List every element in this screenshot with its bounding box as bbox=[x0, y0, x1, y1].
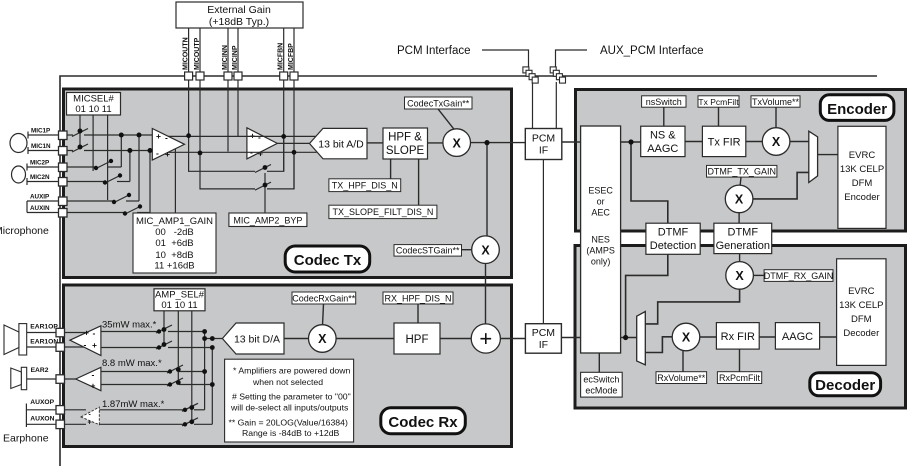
svg-text:10 +8dB: 10 +8dB bbox=[155, 250, 193, 261]
svg-text:DFM: DFM bbox=[852, 178, 873, 189]
svg-text:EAR2: EAR2 bbox=[31, 367, 49, 374]
svg-text:EVRC: EVRC bbox=[849, 150, 876, 161]
svg-text:Decoder: Decoder bbox=[815, 377, 875, 394]
svg-text:* Amplifiers are powered down: * Amplifiers are powered down bbox=[233, 366, 351, 376]
svg-text:EAR1OP: EAR1OP bbox=[30, 324, 58, 331]
svg-text:IF: IF bbox=[539, 145, 548, 157]
svg-text:-: - bbox=[156, 148, 159, 158]
svg-text:01 10 11: 01 10 11 bbox=[75, 104, 111, 115]
svg-text:Encoder: Encoder bbox=[844, 192, 879, 203]
svg-text:PCM: PCM bbox=[532, 133, 555, 145]
svg-text:only): only) bbox=[591, 257, 611, 267]
svg-text:AEC: AEC bbox=[591, 208, 610, 218]
svg-text:TX_HPF_DIS_N: TX_HPF_DIS_N bbox=[332, 180, 398, 190]
svg-text:00 -2dB: 00 -2dB bbox=[155, 227, 194, 238]
svg-text:AUXOP: AUXOP bbox=[30, 399, 54, 406]
svg-text:(+18dB Typ.): (+18dB Typ.) bbox=[209, 16, 269, 28]
svg-text:MIC1P: MIC1P bbox=[31, 128, 50, 135]
svg-text:Tx FIR: Tx FIR bbox=[708, 137, 741, 149]
svg-text:Codec Rx: Codec Rx bbox=[388, 414, 458, 431]
svg-text:NS &: NS & bbox=[650, 130, 676, 142]
svg-text:IF: IF bbox=[539, 339, 548, 351]
svg-text:X: X bbox=[735, 269, 744, 283]
svg-text:EAR1ON: EAR1ON bbox=[30, 339, 58, 346]
svg-text:nsSwitch: nsSwitch bbox=[646, 97, 682, 107]
svg-text:or: or bbox=[597, 197, 605, 207]
svg-text:AAGC: AAGC bbox=[782, 331, 813, 343]
svg-text:MIC_AMP2_BYP: MIC_AMP2_BYP bbox=[233, 215, 302, 225]
svg-text:-: - bbox=[165, 133, 168, 143]
svg-text:-: - bbox=[93, 328, 96, 338]
svg-text:+: + bbox=[92, 340, 97, 350]
svg-text:HPF: HPF bbox=[406, 334, 429, 346]
svg-text:ESEC: ESEC bbox=[588, 186, 613, 196]
svg-text:+: + bbox=[258, 149, 263, 159]
svg-text:MICINN: MICINN bbox=[222, 45, 229, 70]
svg-text:External Gain: External Gain bbox=[207, 4, 271, 16]
svg-text:-: - bbox=[258, 132, 261, 142]
svg-text:CodecRxGain**: CodecRxGain** bbox=[292, 293, 356, 303]
svg-text:Microphone: Microphone bbox=[0, 225, 49, 237]
svg-text:MIC2N: MIC2N bbox=[30, 174, 50, 181]
svg-text:X: X bbox=[735, 193, 744, 207]
svg-text:ecMode: ecMode bbox=[585, 385, 617, 395]
svg-text:AUXIN: AUXIN bbox=[30, 205, 50, 212]
svg-text:Range is -84dB to +12dB: Range is -84dB to +12dB bbox=[242, 428, 340, 438]
svg-text:Codec Tx: Codec Tx bbox=[294, 252, 362, 269]
svg-text:13K CELP: 13K CELP bbox=[840, 164, 884, 175]
svg-text:+: + bbox=[479, 326, 492, 351]
svg-text:DTMF: DTMF bbox=[658, 227, 689, 239]
svg-text:MIC2P: MIC2P bbox=[30, 160, 49, 167]
svg-text:will de-select all inputs/outp: will de-select all inputs/outputs bbox=[230, 403, 349, 413]
svg-text:+: + bbox=[88, 420, 92, 427]
svg-text:Tx PcmFilt: Tx PcmFilt bbox=[698, 97, 739, 107]
svg-text:MICINP: MICINP bbox=[232, 45, 239, 70]
svg-text:DTMF: DTMF bbox=[728, 227, 759, 239]
svg-text:+: + bbox=[91, 381, 96, 391]
svg-text:RX_HPF_DIS_N: RX_HPF_DIS_N bbox=[384, 293, 451, 303]
svg-text:DFM: DFM bbox=[851, 314, 872, 325]
svg-text:13 bit A/D: 13 bit A/D bbox=[318, 139, 364, 151]
svg-text:AAGC: AAGC bbox=[647, 143, 678, 155]
svg-text:MICFBP: MICFBP bbox=[288, 43, 295, 70]
svg-text:+: + bbox=[156, 131, 161, 141]
svg-text:TxVolume**: TxVolume** bbox=[752, 97, 800, 107]
svg-text:(AMPS: (AMPS bbox=[586, 246, 615, 256]
svg-text:+: + bbox=[250, 131, 255, 141]
svg-text:13K CELP: 13K CELP bbox=[839, 300, 883, 311]
svg-text:Decoder: Decoder bbox=[843, 328, 879, 339]
svg-text:AUXIP: AUXIP bbox=[30, 194, 49, 201]
svg-text:EVRC: EVRC bbox=[848, 286, 875, 297]
svg-text:X: X bbox=[453, 136, 462, 150]
svg-text:X: X bbox=[682, 331, 691, 345]
svg-text:+: + bbox=[165, 149, 170, 159]
svg-text:1.87mW max.*: 1.87mW max.* bbox=[102, 399, 165, 410]
svg-text:CodecSTGain**: CodecSTGain** bbox=[396, 246, 460, 256]
svg-text:RxVolume**: RxVolume** bbox=[657, 373, 706, 383]
svg-text:-: - bbox=[92, 370, 95, 380]
svg-text:Rx FIR: Rx FIR bbox=[721, 331, 755, 343]
svg-text:** Gain = 20LOG(Value/16384): ** Gain = 20LOG(Value/16384) bbox=[229, 418, 348, 428]
svg-text:DTMF_RX_GAIN: DTMF_RX_GAIN bbox=[764, 271, 834, 281]
svg-text:PCM: PCM bbox=[532, 327, 555, 339]
svg-text:CodecTxGain**: CodecTxGain** bbox=[407, 98, 470, 108]
svg-text:AUX_PCM Interface: AUX_PCM Interface bbox=[600, 45, 704, 57]
svg-text:SLOPE: SLOPE bbox=[386, 145, 425, 157]
svg-text:HPF &: HPF & bbox=[388, 132, 422, 144]
svg-text:# Setting the parameter to "00: # Setting the parameter to "00" bbox=[232, 392, 351, 402]
svg-text:MICSEL#: MICSEL# bbox=[73, 94, 114, 105]
svg-text:MICOUTN: MICOUTN bbox=[183, 37, 190, 70]
svg-text:AMP_SEL#: AMP_SEL# bbox=[155, 290, 205, 301]
svg-text:8.8 mW max.*: 8.8 mW max.* bbox=[102, 358, 162, 369]
svg-text:X: X bbox=[481, 243, 490, 257]
svg-text:X: X bbox=[318, 332, 327, 346]
svg-text:Generation: Generation bbox=[716, 240, 770, 252]
svg-text:TX_SLOPE_FILT_DIS_N: TX_SLOPE_FILT_DIS_N bbox=[332, 207, 433, 217]
svg-text:ecSwitch: ecSwitch bbox=[583, 374, 619, 384]
svg-text:35mW max.*: 35mW max.* bbox=[102, 320, 157, 331]
svg-text:X: X bbox=[772, 135, 781, 149]
svg-text:when not selected: when not selected bbox=[252, 377, 323, 387]
svg-text:MIC1N: MIC1N bbox=[31, 143, 51, 150]
svg-text:Encoder: Encoder bbox=[827, 101, 887, 118]
svg-text:Earphone: Earphone bbox=[3, 433, 49, 445]
svg-text:MIC_AMP1_GAIN: MIC_AMP1_GAIN bbox=[136, 216, 213, 227]
svg-text:PCM Interface: PCM Interface bbox=[397, 45, 471, 57]
svg-text:DTMF_TX_GAIN: DTMF_TX_GAIN bbox=[707, 167, 776, 177]
svg-text:MICFBN: MICFBN bbox=[278, 43, 285, 70]
svg-text:11 +16dB: 11 +16dB bbox=[154, 261, 194, 272]
svg-text:-: - bbox=[84, 340, 87, 350]
svg-text:Detection: Detection bbox=[650, 240, 696, 252]
svg-text:MICOUTP: MICOUTP bbox=[194, 37, 201, 70]
svg-text:RxPcmFilt: RxPcmFilt bbox=[719, 373, 760, 383]
svg-text:+: + bbox=[84, 328, 89, 338]
svg-text:01 10 11: 01 10 11 bbox=[161, 300, 197, 311]
svg-text:01 +6dB: 01 +6dB bbox=[155, 238, 193, 249]
svg-text:13 bit D/A: 13 bit D/A bbox=[234, 334, 280, 346]
svg-text:NES: NES bbox=[591, 235, 610, 245]
svg-text:AUXON: AUXON bbox=[30, 415, 54, 422]
